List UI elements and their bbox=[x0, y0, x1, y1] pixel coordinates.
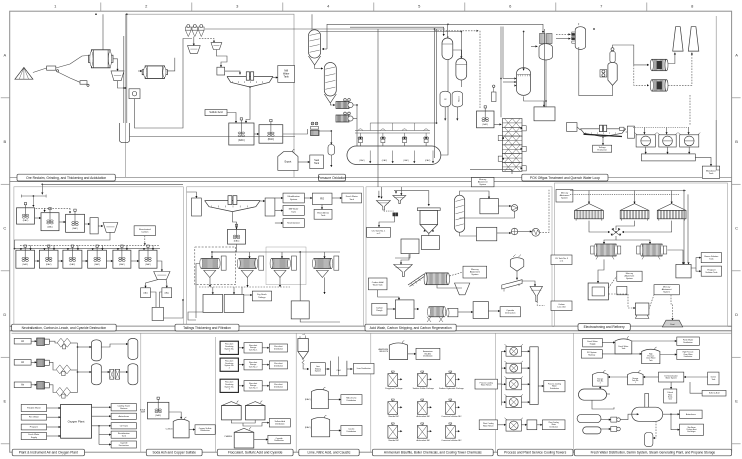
svg-text:Seal: Seal bbox=[314, 160, 319, 162]
Air inlet box 3 bbox=[14, 382, 31, 388]
quench to condensate box bbox=[524, 96, 546, 107]
CIL tank 2 bbox=[39, 245, 58, 268]
cells to junction 3 bbox=[622, 221, 672, 234]
propane bullet 2 bbox=[583, 427, 601, 434]
filtrate tank 3 bbox=[291, 301, 309, 319]
Barren Solution Tank label box bbox=[701, 253, 721, 263]
svg-text:Autoclaves: Autoclaves bbox=[118, 415, 130, 418]
condensate collection box bbox=[534, 107, 555, 121]
tailings filter 1 bbox=[200, 256, 226, 277]
Mill Water Tank label box bbox=[278, 66, 295, 83]
POX feed pump 1 bbox=[336, 99, 353, 109]
svg-text:System: System bbox=[626, 277, 633, 280]
column 2 cone bottom bbox=[324, 94, 336, 103]
regenerated carbon tank bbox=[473, 302, 488, 319]
Lime Slaking System box bbox=[310, 363, 325, 375]
svg-text:Destruction: Destruction bbox=[505, 312, 516, 315]
flocculant storage tank box 3 bbox=[244, 381, 262, 391]
POX vent header bbox=[205, 28, 445, 30]
top band section borders bbox=[125, 14, 716, 177]
svg-text:Distribution: Distribution bbox=[347, 399, 356, 402]
svg-text:(CAC): (CAC) bbox=[403, 159, 409, 162]
Ultrafiltration System label box bbox=[283, 193, 304, 203]
carbon loss screen bbox=[530, 286, 543, 301]
quench thickener bbox=[580, 125, 625, 137]
Dry Stack Tailings label box bbox=[252, 291, 271, 301]
svg-text:Distribution: Distribution bbox=[200, 429, 209, 432]
demister 1 to stack bbox=[668, 53, 676, 64]
cake drop 1 bbox=[209, 277, 211, 287]
svg-text:Distribution: Distribution bbox=[274, 364, 283, 367]
quench feed vertical bbox=[523, 32, 525, 71]
svg-text:Sulfuric Acid: Sulfuric Acid bbox=[709, 392, 719, 395]
dryers to receiver 4 bbox=[120, 371, 128, 373]
compressor 2 to filters bbox=[49, 362, 56, 370]
RO to brine tank bbox=[321, 205, 323, 210]
instrument air dryer towers bbox=[110, 369, 120, 379]
RO to fresh water tank bbox=[332, 197, 342, 199]
cyanide note bbox=[224, 435, 233, 438]
demister 2 to stack dashed bbox=[668, 53, 693, 86]
EW sludge filter 2 bbox=[637, 244, 667, 259]
main stack bbox=[673, 27, 683, 51]
column top feed bbox=[311, 14, 313, 30]
rough to transfer bbox=[387, 308, 395, 310]
thickener underflow drop bbox=[232, 212, 237, 230]
cooler to EW dashed bbox=[540, 189, 549, 232]
svg-text:Soda Ash and Copper Sulfate: Soda Ash and Copper Sulfate bbox=[152, 451, 196, 455]
screen B to acid wash bbox=[395, 191, 397, 194]
svg-text:(DAC): (DAC) bbox=[22, 263, 28, 266]
cyanide destruction out bbox=[164, 300, 184, 318]
svg-text:Corrosion Inhibitor IBC: Corrosion Inhibitor IBC bbox=[441, 415, 462, 418]
acidulation tank 1 bbox=[229, 118, 254, 145]
svg-text:POX Offgas Treatment and Quenc: POX Offgas Treatment and Quench Water Lo… bbox=[530, 176, 600, 180]
section title Ammonium Bisulfite Boiler Chemicals Cooling Tower Chemicals bbox=[372, 449, 493, 456]
filter transfer header bbox=[212, 251, 340, 253]
thickener underflow tank bbox=[228, 224, 246, 244]
svg-text:(CAC): (CAC) bbox=[382, 159, 388, 162]
carbon regeneration kiln 2 bbox=[427, 307, 446, 322]
mill discharge sump bbox=[120, 123, 130, 143]
O2 to tank bbox=[92, 425, 112, 427]
svg-text:C: C bbox=[735, 225, 738, 230]
svg-text:CuSO4: CuSO4 bbox=[166, 428, 174, 430]
KO drum 1 outlet bbox=[444, 107, 446, 121]
quench loop feed bbox=[577, 127, 580, 130]
preg solution trunk bbox=[377, 29, 379, 187]
svg-text:(DAC): (DAC) bbox=[305, 426, 311, 429]
svg-text:Pressure Oxidation: Pressure Oxidation bbox=[318, 176, 346, 180]
CIL tank 6 bbox=[139, 245, 157, 268]
flash 1 vapor line bbox=[447, 24, 544, 38]
flash 2 discharge bbox=[460, 80, 462, 87]
hp tank text bbox=[646, 354, 656, 362]
cell 1 feed bbox=[588, 191, 590, 204]
carbon quench vessel bbox=[510, 255, 524, 272]
standpipe to neutralization bbox=[275, 222, 283, 224]
neutralization tank 2 bbox=[41, 208, 59, 231]
CIL tank 3 overflow bbox=[82, 260, 88, 262]
svg-text:Lime Distribution: Lime Distribution bbox=[357, 367, 371, 370]
RO unit box bbox=[312, 193, 332, 204]
svg-text:(DAC): (DAC) bbox=[145, 263, 151, 266]
acid wash to box bbox=[428, 234, 430, 236]
svg-text:Dry Stack: Dry Stack bbox=[257, 293, 267, 296]
Carbon Hold Wash Tank label box bbox=[368, 278, 387, 290]
neutralization feed manifold bbox=[21, 195, 46, 208]
svg-text:Distribution: Distribution bbox=[274, 439, 283, 442]
cells to junction 2 bbox=[616, 221, 635, 230]
ball mill feed bbox=[138, 70, 142, 72]
Cooling Tower Stations box bbox=[111, 404, 136, 411]
junction to filter 1 bbox=[603, 236, 616, 244]
soda tank to copper tank bbox=[169, 412, 182, 419]
grinding area water line bbox=[126, 14, 128, 123]
autoclave discharge to flash bbox=[441, 36, 448, 155]
svg-text:Distribution: Distribution bbox=[275, 422, 284, 425]
SAG discharge screen bbox=[111, 71, 124, 81]
screen underflow to tank 2 bbox=[166, 280, 168, 288]
silo to slaking bbox=[303, 364, 309, 370]
fresh water tank text bbox=[618, 345, 628, 350]
seal pot line down bbox=[330, 155, 332, 167]
svg-text:Mercury: Mercury bbox=[471, 268, 479, 271]
svg-text:Flocculant, Sulfuric Acid and: Flocculant, Sulfuric Acid and Cyanide bbox=[228, 451, 283, 455]
Air inlet box 2 bbox=[14, 360, 31, 366]
tank to cyanide destruction bbox=[488, 310, 500, 312]
Autoclaves box bbox=[111, 413, 136, 419]
filter 3 feed bbox=[281, 252, 283, 258]
cooler 2 to header bbox=[666, 147, 668, 154]
svg-text:Autoclaves: Autoclaves bbox=[686, 413, 696, 416]
storage 2 to deaerator bbox=[599, 386, 601, 389]
svg-text:Neutralization, Carbon-in-Leac: Neutralization, Carbon-in-Leach, and Cya… bbox=[22, 326, 107, 330]
condensate trunk bbox=[544, 29, 546, 107]
svg-text:Tank: Tank bbox=[284, 75, 290, 78]
flash discharge tank bbox=[477, 106, 495, 128]
caustic tank bbox=[305, 415, 330, 437]
acidulated slurry to POX bbox=[283, 129, 308, 134]
lime dashed drop tank2 bbox=[44, 208, 46, 212]
cell 4 feed bbox=[502, 401, 507, 403]
neut 2 to 3 bbox=[59, 221, 66, 223]
screen A dashed underflow bbox=[384, 210, 394, 212]
svg-text:System: System bbox=[561, 197, 568, 200]
quench standpipe bbox=[627, 126, 634, 138]
svg-text:Destruction: Destruction bbox=[119, 444, 129, 447]
cell 2 feed bbox=[633, 191, 635, 204]
svg-text:Antiscalant IBC: Antiscalant IBC bbox=[416, 439, 430, 442]
hold tank to transfer bbox=[378, 290, 400, 300]
svg-text:Break: Break bbox=[668, 396, 672, 398]
strip heat exchanger bbox=[511, 228, 518, 235]
neutralization tank 3 bbox=[66, 209, 85, 232]
oxygen trunk pair line a bbox=[434, 29, 436, 158]
steam trunk line bbox=[320, 31, 462, 33]
svg-text:RO: RO bbox=[320, 197, 324, 201]
barren trunk vertical a bbox=[683, 191, 685, 265]
svg-text:Biocide IBC: Biocide IBC bbox=[389, 416, 400, 418]
strip column to heater bbox=[460, 191, 491, 199]
filtrate header bbox=[196, 264, 200, 319]
conditioner feed line 2 bbox=[503, 81, 515, 83]
electrowinning cell 1 bbox=[575, 204, 604, 221]
caustic to distribution bbox=[330, 429, 341, 431]
horizontal band divider lines bbox=[10, 177, 732, 333]
Sulfuric Acid label box bbox=[205, 110, 227, 116]
dissolving to storage 3 bbox=[238, 385, 244, 387]
svg-text:Carbon: Carbon bbox=[141, 231, 149, 234]
svg-text:Tank: Tank bbox=[122, 435, 126, 437]
propane bullet 1 bbox=[577, 414, 601, 422]
filters to header 2 bbox=[70, 369, 77, 371]
CIL tank 3 carbon drop bbox=[77, 245, 79, 250]
svg-text:(DAC): (DAC) bbox=[46, 263, 52, 266]
svg-text:Antiscalant IBC: Antiscalant IBC bbox=[416, 415, 430, 418]
svg-text:System: System bbox=[479, 183, 486, 186]
cake to dry stack bbox=[242, 287, 252, 296]
sulfuric acid tank 2 bbox=[245, 401, 265, 420]
ammonium bisulfite tank bbox=[389, 341, 407, 360]
compressor 1 to filters bbox=[49, 341, 58, 343]
svg-text:Steam: Steam bbox=[457, 96, 460, 102]
stripped carbon screen bbox=[394, 265, 413, 277]
svg-text:1: 1 bbox=[229, 351, 230, 353]
steam boiler bbox=[632, 394, 663, 422]
svg-text:(DAC): (DAC) bbox=[268, 138, 275, 141]
svg-text:(DAC): (DAC) bbox=[70, 263, 76, 266]
soda ash mix tank bbox=[148, 397, 169, 419]
air dryer filters 3 bbox=[56, 387, 70, 398]
mercury retort bbox=[635, 303, 649, 318]
cell 1 to basin bbox=[521, 350, 529, 352]
flocculant dissolving system 2 bbox=[220, 358, 238, 371]
receiver 1 to 2 bbox=[101, 343, 128, 347]
cake drop 4 bbox=[323, 277, 325, 294]
oxygen trunk pair line b bbox=[436, 29, 438, 123]
plant basin to distribution bbox=[537, 424, 543, 426]
venturi scrubber bbox=[608, 48, 617, 86]
offgas feed dashed to KO bbox=[556, 33, 571, 35]
bisulfite to distribution bbox=[408, 353, 416, 355]
plant cell to basin bbox=[521, 424, 527, 426]
loaded carbon screen bbox=[154, 272, 170, 280]
Cyanide Destruction box bbox=[111, 441, 136, 448]
carbon strip vessel bbox=[455, 195, 465, 232]
steam manifold above autoclave bbox=[370, 123, 436, 131]
barren trunk vertical b bbox=[687, 194, 689, 264]
Revitalization Tank box bbox=[111, 431, 136, 438]
dissolving to storage 1 bbox=[238, 347, 244, 349]
O2 Tank box bbox=[111, 423, 136, 429]
thickener overflow to mill water tank bbox=[273, 76, 278, 78]
filters to furnace bbox=[597, 259, 604, 283]
acid wash vessel bbox=[417, 208, 440, 234]
chemical tote row 1 col 3 bbox=[439, 371, 465, 390]
tailings filter 2 bbox=[237, 256, 263, 277]
svg-text:Fresh Water: Fresh Water bbox=[28, 433, 39, 436]
svg-text:(DAC): (DAC) bbox=[238, 139, 245, 142]
POX feed pump 2 bbox=[336, 112, 353, 122]
demin tank to system bbox=[684, 376, 708, 378]
tailings filter 3 bbox=[270, 256, 296, 277]
cake conveyor dashed bbox=[199, 286, 290, 288]
air receiver 3 bbox=[92, 364, 102, 385]
svg-text:Tailings: Tailings bbox=[598, 147, 606, 149]
quench return trunk bbox=[689, 95, 691, 125]
chemical tote row 1 col 1 bbox=[385, 371, 403, 390]
SAG discharge bbox=[113, 59, 119, 71]
storage tank no 2 bbox=[593, 370, 609, 386]
svg-text:Distribution: Distribution bbox=[423, 355, 432, 358]
Cyanide Destruction label box bbox=[500, 307, 520, 317]
header to receiver 1 bbox=[78, 346, 92, 348]
slaking to slaker bbox=[325, 368, 329, 370]
dashed steam horizontal bbox=[435, 30, 479, 32]
transfer to kiln2 bbox=[414, 308, 419, 310]
coolers to header bbox=[645, 147, 647, 154]
filter4 to tank3 bbox=[299, 252, 301, 301]
cell 1 feed bbox=[502, 350, 507, 352]
conveyor curve to mill feed bbox=[56, 56, 89, 69]
svg-text:Sulfuric Acid: Sulfuric Acid bbox=[209, 111, 223, 114]
svg-text:Distribution: Distribution bbox=[684, 355, 693, 358]
cell 3 to basin bbox=[521, 383, 529, 385]
CIL tank 1 bbox=[16, 245, 35, 268]
quench conditioner vessel bbox=[514, 68, 530, 96]
svg-text:System: System bbox=[315, 370, 321, 373]
scrubber recirculation pumps bbox=[600, 70, 607, 77]
Potable Water box bbox=[21, 404, 46, 411]
Mill Water Tank label box 2 bbox=[283, 206, 304, 216]
section title Pressure Oxidation bbox=[318, 174, 346, 181]
Reactivated Carbon label box bbox=[134, 226, 155, 236]
filter area dashed enclosure bbox=[195, 247, 236, 285]
pebble crusher bbox=[80, 81, 89, 87]
soda ash feed note bbox=[140, 409, 146, 414]
svg-text:Fresh Water: Fresh Water bbox=[346, 195, 358, 198]
process cooling tower cell 2 bbox=[505, 361, 523, 373]
electrowinning cell 2 bbox=[620, 204, 649, 221]
dissolving to storage 2 bbox=[238, 364, 244, 366]
svg-text:Air: Air bbox=[21, 361, 24, 364]
heater to pump bbox=[498, 205, 511, 207]
acid wash neutralization box bbox=[421, 236, 439, 250]
chemical tote row 3 col 2 bbox=[416, 423, 431, 442]
header to blowdown bbox=[695, 157, 712, 166]
basin to distribution bbox=[538, 385, 544, 387]
Demineralization Water System box bbox=[659, 372, 684, 382]
svg-text:D: D bbox=[735, 312, 738, 317]
kiln to abatement dashed bbox=[450, 272, 464, 276]
carbon return dashed bbox=[144, 236, 146, 246]
filter 4 feed bbox=[323, 252, 325, 258]
deaerator to boiler bbox=[592, 400, 614, 409]
storage tank 2 text bbox=[597, 378, 604, 385]
svg-text:Propylene Package: Propylene Package bbox=[385, 388, 403, 390]
standpipe to UF bbox=[275, 197, 283, 199]
section title Plant and Instrument Air and Oxygen Plant bbox=[12, 449, 84, 456]
air to compressor 2 bbox=[31, 361, 37, 363]
section title Neutralization Carbon-in-Leach Cyanide Destruction bbox=[12, 324, 117, 331]
plant cooling tower cell bbox=[505, 418, 523, 431]
hx cooling water vertical bbox=[500, 27, 502, 118]
blowdown vessel small bbox=[645, 433, 653, 447]
svg-text:Rough: Rough bbox=[376, 310, 383, 312]
CIL tank 1 overflow bbox=[35, 260, 40, 262]
quench cooler 2 bbox=[657, 133, 677, 147]
svg-text:Fresh Water Distribution, Demi: Fresh Water Distribution, Demin System, … bbox=[591, 451, 716, 455]
standpipe to screen bbox=[98, 225, 103, 227]
reclaim feeder bbox=[47, 66, 59, 72]
filters to barren tank bbox=[667, 250, 684, 264]
Propane box bbox=[21, 424, 46, 430]
cooler 3 drop bbox=[688, 128, 690, 135]
CIL tank 5 carbon drop bbox=[126, 245, 128, 250]
filtrate tank 2 bbox=[224, 294, 244, 312]
process cooling tower cell 3 bbox=[505, 376, 523, 389]
cyanide destruction tank bbox=[152, 307, 163, 320]
Pregnant Solution Tank label box bbox=[701, 266, 721, 276]
svg-text:E: E bbox=[735, 398, 738, 403]
svg-text:(CAC): (CAC) bbox=[425, 159, 431, 162]
svg-text:Water Return: Water Return bbox=[483, 424, 494, 427]
air dryer filters 2 bbox=[56, 365, 70, 376]
svg-text:Tank: Tank bbox=[622, 348, 626, 350]
Fresh Water Supply box 2 bbox=[583, 338, 603, 347]
lime silo bbox=[298, 334, 308, 364]
CIL discharge bbox=[157, 261, 163, 272]
cooling tower basin bbox=[530, 347, 538, 405]
air dryer filters 1 bbox=[57, 338, 71, 349]
neut 1 to 2 bbox=[35, 217, 42, 219]
feed to pre-leach thickener bbox=[225, 71, 241, 74]
kiln discharge bbox=[437, 285, 462, 288]
SAG mill bbox=[88, 50, 113, 68]
chemical tote row 2 col 1 bbox=[388, 399, 402, 418]
propane to oxygen plant bbox=[47, 426, 61, 428]
tailings thickener bbox=[205, 196, 261, 212]
cyanide to distribution bbox=[254, 438, 268, 440]
tower bottoms to condensate box bbox=[545, 60, 547, 107]
cooler 1 drop bbox=[643, 128, 645, 135]
svg-text:Wash Tank: Wash Tank bbox=[373, 285, 383, 287]
gold dore bbox=[662, 320, 682, 327]
svg-text:Solution Tank: Solution Tank bbox=[705, 271, 717, 274]
column 1 cone bottom bbox=[309, 56, 321, 65]
acidulation tank 2 bbox=[259, 120, 283, 144]
svg-text:Reactivated: Reactivated bbox=[139, 228, 151, 231]
vent sparger bbox=[492, 85, 497, 102]
pumps to boiler bbox=[620, 413, 639, 420]
svg-text:O2 Tank: O2 Tank bbox=[120, 425, 129, 427]
thickener feed standpipe bbox=[192, 198, 202, 216]
milk of lime tank bbox=[305, 387, 328, 409]
filtrate tank 1 feed bbox=[212, 287, 214, 294]
strip bottom to tank bbox=[460, 232, 477, 236]
svg-text:1: 1 bbox=[635, 382, 636, 384]
acid tanks manifold bbox=[231, 420, 255, 423]
cyclone overflow dashed bbox=[199, 39, 215, 43]
svg-text:2: 2 bbox=[600, 383, 601, 385]
section title Ore Reclaim Grinding Thickening Acidulation bbox=[17, 174, 115, 181]
svg-text:Water Return: Water Return bbox=[481, 384, 492, 387]
svg-text:Ammonium Bisulfite, Boiler Che: Ammonium Bisulfite, Boiler Chemicals, an… bbox=[384, 451, 482, 455]
svg-text:Supply: Supply bbox=[31, 437, 37, 439]
hopper to tank bbox=[458, 311, 473, 313]
neutralization tank 1 bbox=[17, 203, 35, 225]
